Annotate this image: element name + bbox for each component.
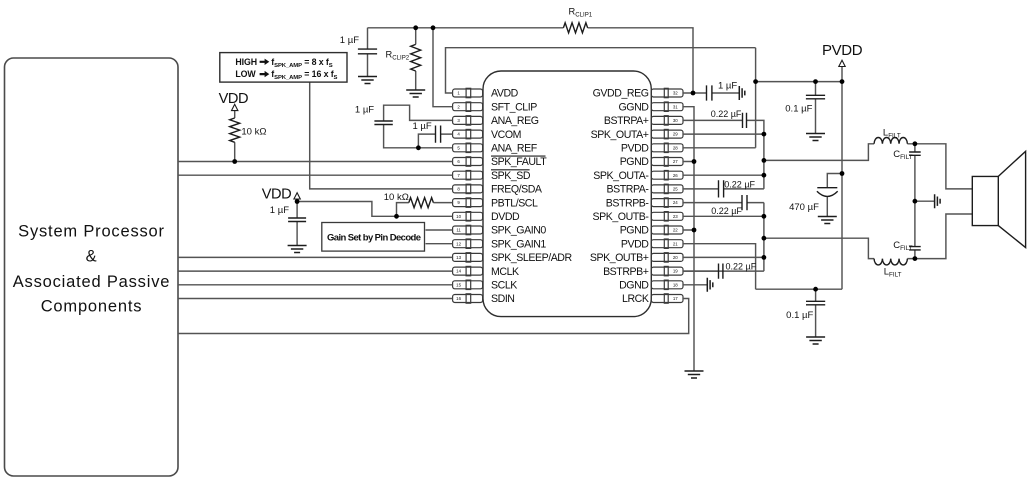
svg-text:GGND: GGND	[619, 101, 650, 113]
svg-text:SFT_CLIP: SFT_CLIP	[491, 101, 537, 113]
svg-text:SCLK: SCLK	[491, 280, 517, 292]
svg-text:15: 15	[456, 282, 461, 287]
svg-text:SPK_OUTA+: SPK_OUTA+	[591, 129, 649, 141]
svg-text:FREQ/SDA: FREQ/SDA	[491, 184, 543, 196]
svg-text:LOW: LOW	[235, 69, 256, 79]
svg-text:BSTRPA-: BSTRPA-	[607, 184, 650, 196]
svg-text:VDD: VDD	[219, 91, 249, 107]
svg-text:LRCK: LRCK	[622, 293, 649, 305]
svg-text:PVDD: PVDD	[621, 143, 649, 155]
svg-text:0.22 µF: 0.22 µF	[726, 261, 757, 271]
svg-text:19: 19	[673, 269, 678, 274]
svg-text:BSTRPB+: BSTRPB+	[603, 266, 649, 278]
svg-text:1 µF: 1 µF	[413, 121, 432, 132]
svg-text:GVDD_REG: GVDD_REG	[593, 88, 649, 100]
svg-text:32: 32	[673, 91, 678, 96]
svg-text:PVDD: PVDD	[822, 42, 863, 59]
svg-text:11: 11	[456, 228, 461, 233]
svg-text:PVDD: PVDD	[621, 238, 649, 250]
svg-text:13: 13	[456, 255, 461, 260]
svg-text:30: 30	[673, 118, 678, 123]
svg-text:ANA_REF: ANA_REF	[491, 143, 538, 155]
svg-text:SPK_GAIN0: SPK_GAIN0	[491, 225, 546, 237]
svg-text:PGND: PGND	[620, 156, 650, 168]
svg-text:SPK_OUTB-: SPK_OUTB-	[593, 211, 650, 223]
svg-text:10 kΩ: 10 kΩ	[384, 192, 409, 203]
svg-text:20: 20	[673, 255, 678, 260]
svg-text:21: 21	[673, 241, 678, 246]
svg-text:31: 31	[673, 104, 678, 109]
svg-text:23: 23	[673, 214, 678, 219]
svg-text:MCLK: MCLK	[491, 266, 519, 278]
svg-text:0.22 µF: 0.22 µF	[711, 109, 742, 119]
svg-text:BSTRPA+: BSTRPA+	[604, 115, 649, 127]
svg-text:17: 17	[673, 296, 678, 301]
svg-text:16: 16	[456, 296, 461, 301]
svg-text:AVDD: AVDD	[491, 88, 519, 100]
svg-text:VDD: VDD	[262, 187, 292, 203]
svg-text:PBTL/SCL: PBTL/SCL	[491, 197, 538, 209]
svg-text:SPK_FAULT: SPK_FAULT	[491, 156, 547, 168]
svg-text:SPK_SD: SPK_SD	[491, 170, 531, 182]
svg-text:DVDD: DVDD	[491, 211, 520, 223]
svg-text:&: &	[86, 247, 98, 265]
svg-text:27: 27	[673, 159, 678, 164]
svg-text:ANA_REG: ANA_REG	[491, 115, 539, 127]
svg-text:10: 10	[456, 214, 461, 219]
svg-text:PGND: PGND	[620, 225, 650, 237]
svg-text:1 µF: 1 µF	[355, 104, 374, 115]
svg-text:0.22 µF: 0.22 µF	[724, 179, 755, 189]
svg-text:12: 12	[456, 241, 461, 246]
svg-text:SPK_SLEEP/ADR: SPK_SLEEP/ADR	[491, 252, 573, 264]
svg-text:28: 28	[673, 145, 678, 150]
svg-text:SPK_OUTA-: SPK_OUTA-	[593, 170, 649, 182]
svg-text:0.1 µF: 0.1 µF	[785, 104, 812, 115]
svg-text:Gain Set by Pin Decode: Gain Set by Pin Decode	[327, 232, 421, 243]
svg-text:SPK_GAIN1: SPK_GAIN1	[491, 238, 546, 250]
svg-text:BSTRPB-: BSTRPB-	[606, 197, 650, 209]
svg-text:VCOM: VCOM	[491, 129, 521, 141]
svg-text:SDIN: SDIN	[491, 293, 515, 305]
svg-text:DGND: DGND	[619, 280, 649, 292]
svg-text:14: 14	[456, 269, 461, 274]
svg-text:System Processor: System Processor	[18, 223, 165, 241]
svg-text:1 µF: 1 µF	[718, 81, 737, 92]
svg-text:26: 26	[673, 173, 678, 178]
svg-text:Associated Passive: Associated Passive	[13, 273, 170, 291]
svg-text:470 µF: 470 µF	[789, 202, 819, 213]
svg-text:22: 22	[673, 228, 678, 233]
svg-text:1 µF: 1 µF	[270, 205, 289, 216]
svg-text:10 kΩ: 10 kΩ	[241, 127, 266, 138]
svg-text:SPK_OUTB+: SPK_OUTB+	[590, 252, 649, 264]
svg-text:18: 18	[673, 282, 678, 287]
svg-text:0.22 µF: 0.22 µF	[711, 206, 742, 216]
svg-text:0.1 µF: 0.1 µF	[786, 310, 813, 321]
svg-text:25: 25	[673, 187, 678, 192]
svg-text:HIGH: HIGH	[235, 57, 257, 67]
svg-text:1 µF: 1 µF	[340, 35, 359, 46]
svg-text:24: 24	[673, 200, 678, 205]
svg-text:29: 29	[673, 132, 678, 137]
svg-text:Components: Components	[41, 298, 143, 316]
